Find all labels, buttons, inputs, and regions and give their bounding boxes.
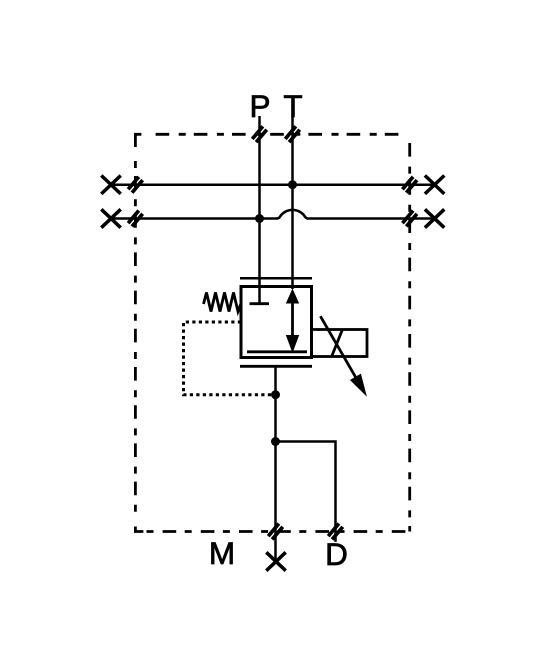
junction dot branch tap	[271, 437, 280, 446]
valve top seat line	[240, 277, 312, 280]
line-break slash at P on top border	[252, 126, 267, 142]
proportional control box	[312, 330, 368, 357]
junction dot pilot tap	[271, 390, 280, 399]
spring	[204, 293, 242, 312]
line-break slash line1 left border	[128, 177, 143, 193]
plugged port X line2 right	[425, 209, 444, 227]
counter diagonal inside control box	[332, 329, 343, 355]
double-headed poppet arrow	[286, 289, 299, 354]
blocked P port bar inside valve	[250, 302, 270, 305]
valve body box	[241, 287, 312, 358]
wire valve output vertical	[274, 366, 277, 561]
line-break slash at M on bottom border	[268, 524, 283, 540]
wire branch to D	[276, 442, 336, 542]
line-break slash line2 left border	[128, 211, 143, 227]
plugged port X line1 left	[101, 176, 120, 194]
svg-text:M: M	[209, 535, 235, 571]
pilot dotted line	[184, 322, 272, 395]
valve bottom seat line	[240, 365, 312, 368]
plugged port X line1 right	[425, 176, 444, 194]
wire T vertical line	[291, 116, 294, 289]
line-break slash line2 right border	[402, 211, 417, 227]
line-break slash at T on top border	[285, 126, 300, 142]
wire horizontal line 1	[111, 183, 435, 186]
enclosure dashed border	[135, 134, 409, 531]
valve inner bottom seat line	[247, 350, 307, 353]
plugged port X line2 left	[101, 209, 120, 227]
junction dot on line 1 at T	[288, 180, 297, 189]
wire P vertical line	[258, 116, 261, 304]
wire horizontal line 2 with hop over T	[111, 210, 435, 219]
junction dot on line 2 at P	[255, 214, 264, 223]
plugged port X at M	[266, 552, 285, 570]
adjustment arrow through control box	[320, 316, 367, 397]
line-break slash at D on bottom border	[328, 524, 343, 540]
line-break slash line1 right border	[402, 177, 417, 193]
